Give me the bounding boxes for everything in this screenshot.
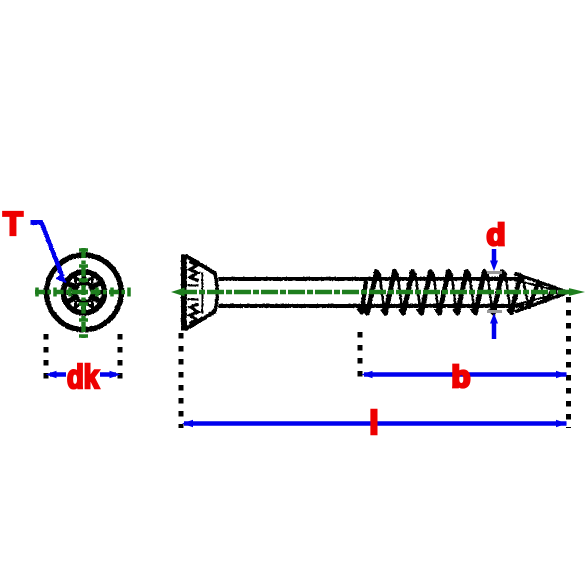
head top view: torx petal outlines [95,289,102,295]
dimension d: lower tick [487,310,502,313]
head top view: torx drive star spokes [81,274,86,286]
dimension d: upper tick [487,271,502,274]
side view: tip cone back edges [522,277,528,304]
dimension d: upper arrow [492,249,497,261]
head top view: vertical centerline [81,248,85,338]
side view: tip cone outline [514,273,567,292]
side view: main centerline [180,290,566,295]
side view: recess edge line [201,272,203,313]
extension line left of head (dk) [44,334,49,381]
extension line at head (l) [179,333,184,428]
svg-text:d: d [487,217,506,252]
head top view: horizontal centerline [35,290,130,294]
svg-text:T: T [3,205,23,242]
extension line right of head (dk) [118,334,123,381]
side view: thread starter partial crest [358,281,366,313]
extension line at thread start (b) [358,332,363,382]
side view: thread back edges [379,274,384,311]
svg-text:l: l [369,404,378,441]
side view: head flat face [181,254,187,330]
side view: tip root taper lines [514,280,553,290]
side view: tip cone thread crests [508,275,523,312]
dimension l line [184,421,567,426]
svg-text:b: b [452,359,471,394]
side view: head/shank fillet arc [214,272,217,313]
side view: countersink taper bottom [185,312,215,330]
head top view: torx star inner circle [74,283,93,302]
svg-text:dk: dk [67,358,100,395]
side view: countersink taper top [185,255,215,273]
dimension dk arrows [50,372,66,377]
head top view: torx recess circle [63,272,104,313]
extension line at tip (b and l) [566,297,571,428]
side view: torx recess serrations [189,261,198,281]
dimension b line [364,372,567,377]
dimension d: lower arrow [492,323,497,339]
side view: shank top line [218,277,524,281]
leader line from T to torx recess [30,222,62,276]
side view: shank bottom line [218,304,524,308]
side view: thread crests [364,271,379,313]
head top view: outer circle (head diameter dk) [46,255,121,330]
